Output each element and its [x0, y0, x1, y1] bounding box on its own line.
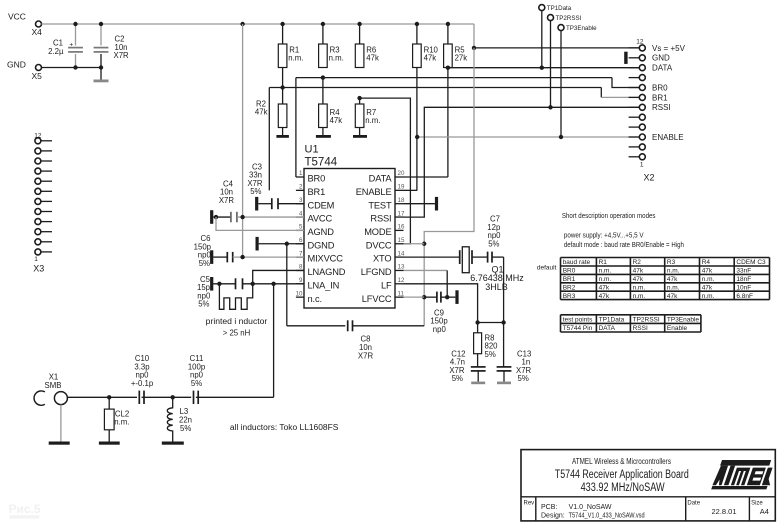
svg-text:R4: R4 — [702, 259, 711, 266]
test point TP2 — [548, 15, 582, 108]
label C2 value — [114, 35, 130, 61]
label inductor note — [230, 423, 339, 432]
svg-text:> 25 nH: > 25 nH — [223, 329, 251, 338]
terminal X5 (GND) — [7, 60, 42, 82]
svg-text:R2: R2 — [633, 259, 642, 266]
label C5 value — [197, 275, 211, 309]
svg-text:12: 12 — [34, 133, 42, 140]
label Date — [687, 501, 736, 517]
wire DATA net — [404, 68, 640, 178]
label title frequency — [581, 482, 665, 494]
svg-text:n.m.: n.m. — [329, 54, 344, 63]
inductor printed (LNA input) — [219, 284, 252, 310]
ground below R4 — [316, 135, 331, 138]
label U1 — [305, 144, 319, 156]
svg-text:BR0: BR0 — [563, 268, 576, 275]
svg-text:n.m.: n.m. — [114, 418, 129, 427]
svg-text:47k: 47k — [633, 276, 644, 283]
svg-text:DVCC: DVCC — [366, 240, 392, 250]
ground at C4 — [210, 210, 213, 224]
svg-text:47k: 47k — [702, 268, 713, 275]
wire GND net from X5 — [42, 67, 102, 69]
label C1 value — [48, 39, 64, 57]
title block frame — [521, 450, 775, 521]
label PCB line — [541, 504, 612, 511]
svg-text:printed i nductor: printed i nductor — [206, 317, 268, 326]
svg-text:TEST: TEST — [368, 200, 392, 210]
node LNA input junctions — [217, 282, 276, 286]
svg-text:ENABLE: ENABLE — [652, 133, 684, 142]
capacitor C4 — [213, 212, 304, 223]
svg-text:6: 6 — [299, 237, 303, 244]
svg-text:BR0: BR0 — [308, 174, 326, 184]
svg-text:16: 16 — [398, 224, 405, 231]
svg-text:n.m.: n.m. — [702, 293, 715, 300]
svg-text:n.m.: n.m. — [667, 268, 680, 275]
resistor R4 — [319, 78, 343, 135]
svg-text:DGND: DGND — [308, 240, 335, 250]
svg-text:47k: 47k — [599, 293, 610, 300]
svg-text:4: 4 — [299, 210, 303, 217]
node LF/R8 junctions — [475, 320, 505, 324]
svg-text:RSSI: RSSI — [633, 325, 648, 332]
svg-text:n.m.: n.m. — [633, 293, 646, 300]
svg-text:TP1Data: TP1Data — [547, 5, 572, 12]
svg-text:19: 19 — [398, 184, 405, 191]
op IC U1 T5744 box — [304, 169, 395, 309]
svg-text:5%: 5% — [485, 350, 496, 359]
ground at X2 GND pin — [624, 52, 627, 64]
svg-text:5: 5 — [299, 224, 303, 231]
svg-text:LNAGND: LNAGND — [308, 267, 346, 277]
label C3 value — [247, 163, 263, 197]
label X2 — [644, 173, 655, 183]
inductor L3 — [167, 397, 172, 441]
capacitor C6 — [213, 252, 304, 263]
svg-text:3HLB: 3HLB — [485, 282, 508, 292]
node VCC bus junctions — [73, 22, 450, 26]
resistor R10 — [413, 24, 439, 68]
svg-text:MIXVCC: MIXVCC — [308, 254, 344, 264]
svg-text:5%: 5% — [198, 300, 209, 309]
resistor R6 — [355, 24, 379, 68]
node LFVCC junction — [422, 295, 426, 299]
svg-text:5%: 5% — [250, 187, 261, 196]
svg-text:BR1: BR1 — [308, 187, 326, 197]
svg-text:X3: X3 — [33, 263, 44, 273]
ground below X1 — [49, 442, 70, 445]
svg-text:Short description operation mo: Short description operation modes — [562, 213, 656, 220]
wire RSSI net — [404, 107, 640, 217]
label C12 value — [449, 350, 465, 384]
svg-text:SMB: SMB — [45, 381, 62, 390]
svg-text:33nF: 33nF — [736, 268, 751, 275]
node Vs corner — [472, 46, 476, 50]
svg-text:baud rate: baud rate — [563, 259, 591, 266]
node DATA junctions — [446, 66, 544, 70]
svg-text:1: 1 — [299, 170, 303, 177]
svg-text:all inductors: Toko LL1608FS: all inductors: Toko LL1608FS — [230, 423, 339, 432]
svg-text:10: 10 — [296, 290, 303, 297]
svg-text:2.2µ: 2.2µ — [48, 47, 64, 56]
svg-text:GND: GND — [652, 54, 670, 63]
wire LNA_IN down to matching network — [273, 284, 275, 398]
svg-text:X2: X2 — [644, 173, 655, 183]
svg-text:MODE: MODE — [364, 227, 391, 237]
svg-text:n.m.: n.m. — [599, 276, 612, 283]
svg-text:T5744 Pin: T5744 Pin — [563, 325, 593, 332]
label C7 value — [487, 215, 501, 249]
svg-text:13: 13 — [398, 264, 405, 271]
node AVCC junctions — [214, 215, 245, 219]
connector X3 pins — [35, 138, 52, 255]
label C6 value — [194, 234, 212, 268]
connector X2 pins — [629, 45, 646, 160]
svg-text:n.m.: n.m. — [365, 116, 380, 125]
resistor CL2 — [104, 397, 129, 441]
svg-text:DATA: DATA — [652, 64, 673, 73]
svg-text:Enable: Enable — [667, 325, 688, 332]
node DVCC junction — [422, 242, 426, 246]
svg-text:LNA_IN: LNA_IN — [308, 280, 340, 290]
svg-text:n.m.: n.m. — [702, 276, 715, 283]
label C8 value — [358, 335, 374, 361]
wire LFGND net — [404, 270, 448, 297]
node DGND junction — [285, 242, 289, 246]
wire DVCC stub — [404, 243, 425, 245]
svg-text:Vs = +5V: Vs = +5V — [652, 44, 686, 53]
ground below R2 — [276, 135, 289, 138]
wire ENABLE net — [404, 68, 640, 191]
svg-text:ATMEL Wireless & Microcontroll: ATMEL Wireless & Microcontrollers — [572, 457, 671, 466]
svg-text:T5744_V1.0_433_NoSAW.vsd: T5744_V1.0_433_NoSAW.vsd — [569, 512, 645, 519]
ground below C2 — [94, 68, 109, 83]
node BR1 at R1/R2 — [280, 85, 284, 89]
svg-text:DATA: DATA — [599, 325, 616, 332]
capacitor C3 — [258, 198, 304, 209]
wire LNAGND to LNA input node — [253, 270, 304, 283]
svg-text:15: 15 — [398, 237, 405, 244]
wire LF net — [404, 284, 504, 323]
svg-text:BR1: BR1 — [652, 93, 668, 102]
svg-text:n.c.: n.c. — [308, 294, 322, 304]
svg-text:power supply: +4,5V...+5,5 V: power supply: +4,5V...+5,5 V — [564, 232, 644, 239]
svg-text:LFVCC: LFVCC — [362, 294, 392, 304]
wire AVCC rail (gray) — [242, 24, 244, 257]
svg-text:ENABLE: ENABLE — [356, 187, 392, 197]
test point TP3 — [558, 25, 597, 137]
node MODE at R6/R7 — [357, 96, 361, 100]
crystal Q1 — [404, 247, 488, 273]
svg-text:np0: np0 — [433, 325, 447, 334]
node C9/LFGND junction — [445, 295, 449, 299]
svg-text:X7R: X7R — [358, 352, 374, 361]
ground at TEST pin — [404, 197, 439, 211]
label default row marker — [537, 265, 557, 272]
test point TP1 — [539, 5, 572, 68]
svg-text:V1.0_NoSAW: V1.0_NoSAW — [569, 504, 612, 511]
svg-text:14: 14 — [398, 250, 405, 257]
resistor R8 — [474, 323, 499, 367]
label short description — [562, 213, 656, 220]
wire MODE net — [360, 98, 411, 244]
svg-text:47k: 47k — [599, 284, 610, 291]
node BR0 at R3/R4 — [321, 75, 325, 79]
IC pin stubs — [296, 177, 404, 297]
label C10 value — [131, 354, 154, 388]
svg-text:8: 8 — [299, 264, 303, 271]
capacitor C2 — [94, 24, 109, 68]
label IC pin numbers — [296, 170, 405, 297]
ground below L3 — [162, 442, 184, 445]
svg-text:+: + — [69, 42, 73, 49]
node MIXVCC junction — [240, 255, 244, 259]
node ENABLE junctions — [415, 135, 563, 139]
wire XTO/C7 branch down to C13 — [503, 257, 505, 367]
svg-text:5%: 5% — [180, 424, 191, 433]
svg-text:A4: A4 — [760, 507, 769, 516]
label T5744 — [305, 157, 338, 169]
svg-text:47k: 47k — [255, 108, 268, 117]
svg-text:R3: R3 — [667, 259, 676, 266]
svg-text:5%: 5% — [452, 374, 463, 383]
svg-text:Date: Date — [687, 501, 700, 507]
svg-text:BR1: BR1 — [563, 276, 576, 283]
svg-text:BR0: BR0 — [652, 83, 668, 92]
svg-text:CDEM C3: CDEM C3 — [736, 259, 766, 266]
svg-text:AGND: AGND — [308, 227, 335, 237]
svg-text:X7R: X7R — [219, 196, 235, 205]
watermark — [9, 502, 41, 519]
label Size — [751, 501, 769, 517]
capacitor C8 — [287, 320, 424, 331]
node antenna junctions — [107, 395, 175, 399]
svg-text:47k: 47k — [667, 293, 678, 300]
svg-text:47k: 47k — [366, 54, 379, 63]
svg-text:47k: 47k — [702, 284, 713, 291]
wire BR1 net — [269, 88, 639, 191]
ground at C6 — [210, 250, 213, 264]
node RSSI at TP2 — [548, 105, 552, 109]
svg-text:Size: Size — [751, 501, 763, 507]
svg-text:TP3Enable: TP3Enable — [566, 25, 597, 32]
ground below C12 — [471, 382, 485, 385]
svg-text:3: 3 — [299, 197, 303, 204]
svg-text:47k: 47k — [667, 276, 678, 283]
label X2 pin numbers — [636, 39, 644, 169]
svg-text:RSSI: RSSI — [370, 214, 391, 224]
ground at C3 — [255, 197, 258, 211]
svg-text:TP1Data: TP1Data — [599, 316, 625, 323]
svg-text:R1: R1 — [599, 259, 608, 266]
svg-text:27k: 27k — [455, 54, 468, 63]
svg-text:AVCC: AVCC — [308, 214, 333, 224]
svg-text:n.m.: n.m. — [599, 268, 612, 275]
resistor R5 — [444, 24, 468, 68]
label Q1 value — [470, 265, 524, 293]
table test points — [561, 315, 701, 332]
svg-text:47k: 47k — [633, 268, 644, 275]
svg-text:47k: 47k — [330, 116, 343, 125]
wire DGND net — [259, 244, 304, 326]
svg-text:T5744 Receiver Application Boa: T5744 Receiver Application Board — [555, 469, 689, 481]
label title company — [572, 457, 671, 466]
svg-text:default: default — [537, 265, 557, 272]
capacitor C10 — [139, 391, 144, 404]
svg-text:CDEM: CDEM — [308, 200, 335, 210]
svg-text:22.8.01: 22.8.01 — [712, 507, 737, 516]
connector X1 SMB — [34, 373, 67, 406]
svg-text:6.8nF: 6.8nF — [736, 293, 753, 300]
capacitor C12 — [471, 367, 486, 382]
svg-text:test points: test points — [563, 316, 593, 323]
wire X1 shield to ground — [60, 405, 62, 442]
svg-text:18nF: 18nF — [736, 276, 751, 283]
svg-text:1: 1 — [34, 256, 38, 263]
svg-text:5%: 5% — [518, 374, 529, 383]
svg-text:17: 17 — [398, 210, 405, 217]
svg-text:18: 18 — [398, 197, 405, 204]
label X3 pin numbers — [34, 133, 42, 263]
capacitor C13 — [497, 367, 512, 382]
svg-text:X5: X5 — [32, 71, 43, 81]
svg-text:TP2RSSI: TP2RSSI — [556, 15, 582, 22]
svg-text:47k: 47k — [424, 54, 437, 63]
label X2 net names — [652, 44, 686, 142]
svg-text:Rev: Rev — [524, 501, 535, 507]
node GND net junctions — [73, 65, 103, 69]
logo ATMEL — [711, 460, 778, 489]
label title board — [555, 469, 689, 481]
label Rev — [524, 501, 535, 507]
label default mode — [564, 242, 684, 249]
svg-text:n.m.: n.m. — [633, 284, 646, 291]
svg-text:default mode : baud rate BR0/E: default mode : baud rate BR0/Enable = Hi… — [564, 242, 684, 249]
svg-text:n.m.: n.m. — [667, 284, 680, 291]
capacitor C1 — [68, 24, 83, 68]
svg-text:T5744: T5744 — [305, 157, 338, 169]
label C4 value — [219, 180, 235, 205]
svg-text:n.m.: n.m. — [288, 54, 303, 63]
svg-text:Design:: Design: — [541, 512, 565, 519]
terminal X4 (VCC) — [8, 12, 42, 38]
ground below C13 — [497, 382, 511, 385]
resistor R1 — [278, 24, 303, 68]
resistor R3 — [319, 24, 344, 68]
svg-text:TP2RSSI: TP2RSSI — [633, 316, 660, 323]
capacitor C9 — [424, 292, 455, 303]
svg-text:XTO: XTO — [373, 254, 392, 264]
capacitor C11 — [194, 391, 199, 404]
ground at C5 — [210, 277, 213, 291]
svg-text:5%: 5% — [488, 239, 499, 248]
label X3 — [33, 263, 44, 273]
capacitor C7 — [488, 252, 504, 263]
svg-text:5%: 5% — [199, 259, 210, 268]
svg-text:2: 2 — [299, 184, 303, 191]
svg-text:GND: GND — [7, 60, 26, 70]
resistor R2 — [255, 68, 287, 136]
wire antenna line — [67, 396, 273, 398]
ground at DGND — [256, 237, 259, 251]
svg-text:BR3: BR3 — [563, 293, 576, 300]
capacitor C5 — [213, 278, 304, 289]
svg-text:VCC: VCC — [8, 12, 26, 22]
svg-text:5%: 5% — [191, 379, 202, 388]
wire AGND to C4 ground — [216, 217, 304, 230]
svg-text:RSSI: RSSI — [652, 103, 671, 112]
label L3 value — [179, 407, 192, 433]
svg-text:9: 9 — [299, 277, 303, 284]
label C13 value — [516, 350, 532, 384]
svg-text:1: 1 — [640, 162, 644, 169]
svg-text:12: 12 — [636, 39, 644, 46]
wire VCC bus — [42, 23, 475, 25]
svg-text:TP3Enable: TP3Enable — [667, 316, 700, 323]
label Design line — [541, 512, 645, 519]
wire BR0 net — [296, 78, 639, 177]
wire VCC rail right — [424, 48, 474, 326]
svg-text:PCB:: PCB: — [541, 504, 557, 511]
svg-text:LF: LF — [381, 280, 392, 290]
svg-text:LFGND: LFGND — [361, 267, 392, 277]
label IC pin names — [308, 174, 393, 304]
ground below R7 — [353, 135, 367, 138]
ground at C9 — [455, 290, 458, 304]
label C9 value — [430, 309, 448, 334]
wire LFVCC stub — [404, 296, 425, 298]
table operation modes — [561, 258, 770, 300]
svg-text:Рис.5: Рис.5 — [9, 502, 41, 516]
ground below CL2 — [99, 442, 120, 445]
svg-text:X7R: X7R — [114, 51, 130, 60]
svg-text:10nF: 10nF — [736, 284, 751, 291]
resistor R7 — [355, 98, 380, 135]
svg-text:12: 12 — [398, 277, 405, 284]
label power supply — [564, 232, 644, 239]
svg-text:U1: U1 — [305, 144, 319, 156]
svg-text:X4: X4 — [32, 27, 43, 37]
svg-text:11: 11 — [398, 290, 405, 297]
svg-text:DATA: DATA — [369, 174, 393, 184]
svg-text:20: 20 — [398, 170, 405, 177]
label printed inductor — [206, 317, 268, 338]
label C11 value — [188, 354, 206, 388]
svg-text:BR2: BR2 — [563, 284, 576, 291]
svg-text:+-0.1p: +-0.1p — [131, 379, 154, 388]
svg-text:7: 7 — [299, 250, 303, 257]
wire Vs supply to X2 — [474, 24, 639, 48]
svg-text:433.92 MHz/NoSAW: 433.92 MHz/NoSAW — [581, 482, 665, 494]
